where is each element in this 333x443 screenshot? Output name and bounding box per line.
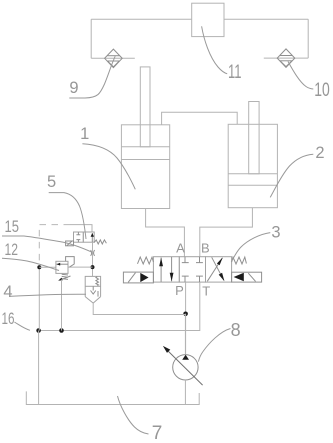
- svg-text:4: 4: [3, 283, 12, 301]
- reducing valve 12 adjustment arrow: [58, 276, 70, 281]
- svg-text:16: 16: [2, 310, 15, 328]
- wire drain left vertical: [38, 265, 40, 331]
- wire riser from valve 5 through throttle: [92, 242, 94, 276]
- leader line for label 4: [9, 294, 86, 296]
- wire top-right horizontal from box 11: [224, 18, 308, 20]
- wire drain header into valve 5: [70, 225, 92, 232]
- check valve 4 body: [85, 276, 100, 303]
- throttle orifice 15: [91, 250, 95, 256]
- valve 3 body boxes: [153, 257, 231, 282]
- reducing valve 12 spring: [62, 274, 68, 279]
- valve 3 centre position blocked-port stubs: [182, 257, 203, 282]
- junction dot return rail left: [36, 328, 41, 333]
- valve 3 left position parallel flow arrows: [159, 257, 173, 282]
- svg-text:B: B: [201, 241, 210, 256]
- check valve 4 spring: [96, 277, 99, 286]
- reducing valve 12 pilot line loop: [66, 257, 75, 268]
- valve 5 return spring: [94, 240, 106, 244]
- check valve 4 poppet seat: [91, 286, 99, 296]
- reducing valve 12 flow path arrow: [57, 263, 69, 266]
- svg-text:11: 11: [228, 62, 242, 83]
- valve 5 body boxes: [74, 232, 95, 242]
- wire right vertical drop: [307, 19, 309, 58]
- junction dot drain to reducing valve: [37, 265, 41, 269]
- wire return rail to tank: [38, 331, 40, 405]
- junction dot riser to reducing valve: [91, 265, 95, 269]
- wire P line from valve to pump: [185, 282, 187, 355]
- leader line for label 3: [231, 233, 270, 262]
- svg-text:2: 2: [315, 144, 324, 162]
- svg-text:5: 5: [47, 173, 56, 191]
- wire cylinder 2 bottom port to valve port B: [200, 208, 253, 257]
- cylinder 2 body: [228, 124, 277, 207]
- cylinder 2 piston rod: [249, 102, 259, 174]
- leader line for label 15: [2, 236, 92, 252]
- svg-text:7: 7: [152, 423, 163, 443]
- valve 3 left proportional solenoid: [123, 272, 153, 283]
- cylinder 2 piston: [228, 174, 277, 185]
- cylinder 1 piston rod: [140, 67, 150, 147]
- svg-text:3: 3: [271, 224, 280, 242]
- svg-text:A: A: [176, 241, 185, 256]
- wire pump suction to tank: [184, 380, 186, 405]
- leader line for label 7: [118, 396, 149, 434]
- svg-text:P: P: [175, 283, 184, 298]
- valve 3 right return spring: [232, 257, 247, 264]
- svg-text:12: 12: [4, 241, 18, 259]
- wire into filter 9: [91, 57, 135, 59]
- valve 5 solenoid: [66, 241, 74, 246]
- wire check valve outlet to P junction: [93, 303, 185, 314]
- junction dot P line: [183, 312, 188, 317]
- leader line for label 1: [82, 144, 135, 190]
- leader line for label 11: [202, 26, 228, 74]
- junction dot return rail drain: [59, 328, 64, 333]
- cylinder 1 piston: [121, 147, 169, 160]
- wire into filter 10: [264, 57, 308, 59]
- wire reducing valve 12 right branch: [68, 266, 93, 268]
- valve 5 open position flow arrow: [91, 233, 94, 242]
- cylinder 1 body: [121, 125, 169, 209]
- leader line for label 9: [69, 56, 115, 98]
- filter 10 (diamond separator): [277, 49, 295, 68]
- leader line for label 12: [2, 258, 59, 270]
- wire cylinder 1 bottom port to valve port A: [146, 209, 185, 257]
- leader line for label 10: [288, 62, 313, 90]
- leader line for label 8: [198, 329, 230, 362]
- svg-text:15: 15: [4, 218, 19, 236]
- filter 9 (diamond separator): [105, 49, 123, 68]
- wire left vertical drop: [90, 19, 92, 58]
- pump 8 circle: [173, 355, 198, 380]
- wire rod-side link between cylinders: [162, 112, 238, 125]
- svg-text:10: 10: [314, 80, 330, 101]
- valve 3 left return spring: [138, 257, 154, 264]
- wire T line from valve to return rail: [39, 282, 200, 330]
- svg-text:1: 1: [80, 125, 89, 143]
- pump 8 variable displacement arrow: [163, 346, 203, 385]
- manifold enclosure dashed boundary: [39, 225, 70, 265]
- wire pump outlet to P junction: [184, 314, 186, 355]
- leader line for label 16: [14, 322, 30, 330]
- leader line for label 5: [49, 193, 86, 239]
- valve 5 blocked position stubs: [76, 232, 80, 242]
- reducing valve 12 body: [56, 261, 68, 273]
- svg-text:9: 9: [69, 79, 78, 97]
- pump 8 outlet triangle: [182, 355, 189, 360]
- wire top-left horizontal to box 11: [91, 18, 192, 20]
- svg-text:T: T: [202, 283, 210, 298]
- leader line for label 2: [270, 154, 313, 197]
- wire reducing valve 12 left branch: [39, 266, 56, 268]
- svg-text:8: 8: [231, 320, 241, 340]
- valve 3 right proportional solenoid: [232, 272, 262, 282]
- tank 7 reservoir: [26, 391, 199, 404]
- wire drain from reducing valve spring chamber: [61, 280, 63, 331]
- valve 3 right position crossed flow arrows: [207, 257, 224, 281]
- component box 11: [192, 3, 224, 36]
